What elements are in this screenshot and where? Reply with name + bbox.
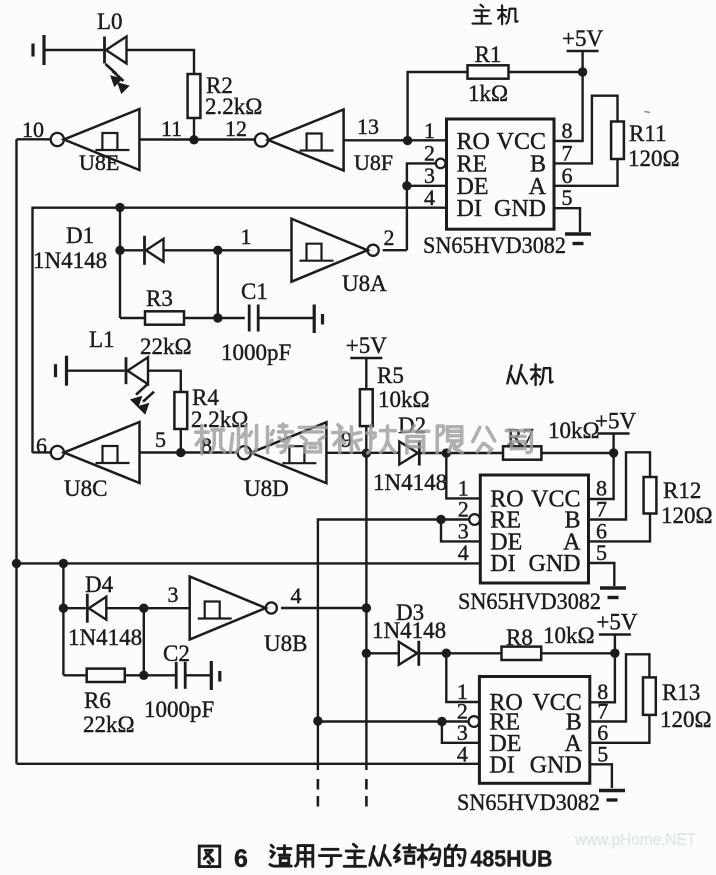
svg-text:D1: D1 bbox=[66, 223, 94, 248]
junction left bus / DI slave bbox=[12, 559, 21, 568]
junction D4 branch bbox=[59, 559, 68, 568]
svg-text:1000pF: 1000pF bbox=[221, 340, 291, 365]
junction D1 anode bbox=[115, 246, 124, 255]
wire node 10 to U8E output bbox=[17, 138, 51, 140]
svg-text:4: 4 bbox=[424, 185, 435, 210]
inverter U8F bbox=[255, 110, 344, 171]
svg-text:5: 5 bbox=[597, 741, 608, 766]
svg-text:4: 4 bbox=[291, 583, 302, 608]
junction R6/C2 bbox=[139, 671, 148, 680]
svg-text:2: 2 bbox=[384, 225, 395, 250]
wire U8E input node 11 bbox=[139, 138, 255, 140]
wire C1 to ground bbox=[258, 317, 313, 319]
wire D3 to RO branch (bottom) bbox=[419, 652, 502, 654]
junction node 5 (R4) bbox=[176, 448, 185, 457]
ground (bottom GND pin) bbox=[599, 791, 625, 801]
svg-text:U8E: U8E bbox=[79, 150, 119, 175]
svg-text:+5V: +5V bbox=[562, 26, 603, 51]
svg-text:GND: GND bbox=[529, 551, 581, 577]
wire ground to LED L1 bbox=[67, 370, 125, 372]
wire ground to LED L0 bbox=[44, 49, 103, 51]
junction D4 anode bbox=[59, 604, 68, 613]
wire DI-branch vertical bbox=[119, 207, 121, 318]
wire R2 bottom to node 11 bbox=[193, 118, 195, 140]
wire R3 left leg bbox=[120, 317, 145, 319]
svg-text:120Ω: 120Ω bbox=[628, 146, 680, 171]
+5V supply (master) bbox=[562, 26, 603, 51]
junction RE/DE tie (bottom) bbox=[437, 717, 446, 726]
wire +5V down to bottom VCC bbox=[590, 635, 615, 703]
resistor R5 bbox=[360, 389, 373, 426]
wire D4 branch vertical bbox=[62, 563, 64, 675]
diode D3 bbox=[399, 641, 419, 666]
ground (L1) bbox=[56, 356, 67, 386]
wire to D1 bbox=[120, 249, 143, 251]
svg-text:C2: C2 bbox=[163, 641, 190, 666]
svg-text:R1: R1 bbox=[475, 42, 502, 67]
wire D1 to node 1 bbox=[164, 249, 292, 251]
svg-text:1000pF: 1000pF bbox=[144, 697, 214, 722]
transceiver U-slave (SN65HVD3082) bbox=[458, 475, 607, 583]
wire LED L0 to R2 top bbox=[127, 50, 195, 74]
wire C2 to ground bbox=[185, 674, 210, 676]
transceiver U-bottom (SN65HVD3082) bbox=[457, 677, 608, 784]
wire D2 to RO branch bbox=[419, 452, 503, 454]
inverter U8A bbox=[292, 219, 379, 282]
wire to slave RO pin1 bbox=[446, 453, 480, 498]
svg-text:5: 5 bbox=[155, 427, 166, 452]
diode D1 bbox=[145, 236, 164, 265]
resistor R7 bbox=[503, 446, 541, 459]
svg-text:SN65HVD3082: SN65HVD3082 bbox=[457, 790, 600, 815]
LED L1 bbox=[126, 357, 154, 414]
svg-text:SN65HVD3082: SN65HVD3082 bbox=[423, 233, 566, 258]
resistor R6 bbox=[87, 669, 125, 682]
diode D4 bbox=[87, 594, 106, 623]
watermark 杭州将睿科技有限公司 bbox=[196, 424, 532, 454]
svg-text:1: 1 bbox=[424, 118, 435, 143]
svg-text:1kΩ: 1kΩ bbox=[468, 81, 508, 106]
svg-text:12: 12 bbox=[225, 116, 247, 141]
wire C2 branch vertical bbox=[143, 608, 145, 675]
svg-text:C1: C1 bbox=[241, 279, 268, 304]
svg-text:D4: D4 bbox=[85, 572, 114, 597]
wire R6 left leg bbox=[63, 674, 86, 676]
svg-text:DI: DI bbox=[489, 752, 514, 778]
caption 图 6 适用于主从结构的 485HUB bbox=[199, 844, 552, 873]
svg-text:4: 4 bbox=[458, 540, 469, 565]
junction node 13 (RO/R1) bbox=[403, 136, 412, 145]
wire R3 to C1 bbox=[184, 317, 245, 319]
wire LED L1 to R4 bbox=[148, 371, 181, 392]
ground (master GND pin) bbox=[565, 234, 591, 244]
LED L0 bbox=[105, 37, 129, 94]
wire DI row (slave, from left bus) bbox=[17, 562, 481, 564]
junction node1/C1 branch bbox=[213, 246, 222, 255]
wire to bottom RO pin1 bbox=[446, 653, 479, 702]
wire U8D input node 9 bbox=[326, 452, 399, 454]
wire B pin7 (master) bbox=[554, 96, 618, 164]
svg-text:485HUB: 485HUB bbox=[471, 846, 553, 872]
wire left bus vertical (node 10) bbox=[15, 139, 17, 764]
svg-text:1N4148: 1N4148 bbox=[373, 470, 447, 495]
svg-text:3: 3 bbox=[424, 163, 435, 188]
wire R6 to C2 bbox=[125, 674, 176, 676]
wire DI pin4 row (master) bbox=[33, 208, 447, 453]
svg-text:4: 4 bbox=[457, 741, 468, 766]
wire D4 to node 3 bbox=[106, 607, 189, 609]
svg-text:5: 5 bbox=[596, 540, 607, 565]
svg-text:120Ω: 120Ω bbox=[660, 707, 712, 732]
wire RE tie row (slave) bbox=[318, 520, 469, 771]
scan speck bbox=[645, 112, 651, 113]
wire RE tie row (bottom) bbox=[318, 720, 469, 722]
svg-text:U8D: U8D bbox=[244, 476, 289, 501]
svg-text:3: 3 bbox=[168, 582, 179, 607]
svg-text:22kΩ: 22kΩ bbox=[83, 712, 135, 737]
ground (C2) bbox=[211, 661, 220, 690]
svg-text:1N4148: 1N4148 bbox=[372, 618, 446, 643]
wire R4 bottom to node 5 bbox=[180, 429, 182, 453]
junction R3/C1 bbox=[213, 313, 222, 322]
resistor R2 bbox=[188, 74, 201, 118]
wire node 9 vertical bus bbox=[365, 453, 367, 770]
+5V supply (slave) bbox=[595, 409, 636, 434]
inverter U8D bbox=[238, 422, 327, 483]
svg-text:6: 6 bbox=[234, 845, 248, 873]
wire R8 to +5V (bottom) bbox=[541, 652, 615, 654]
wire GND pin5 (bottom) bbox=[590, 764, 612, 788]
svg-text:8: 8 bbox=[562, 118, 573, 143]
wire DE pin3 (master) bbox=[407, 185, 447, 187]
svg-text:13: 13 bbox=[357, 114, 379, 139]
resistor R12 bbox=[644, 477, 657, 514]
wire to D4 bbox=[63, 607, 85, 609]
svg-text:11: 11 bbox=[161, 116, 182, 141]
label 主机 (master) bbox=[473, 5, 518, 25]
wire B pin7 (bottom) bbox=[590, 654, 650, 721]
dashed continuation left bus bbox=[317, 779, 320, 810]
svg-text:1N4148: 1N4148 bbox=[68, 625, 142, 650]
wire node 6 to U8C bbox=[33, 451, 51, 453]
junction +5V/R7 (slave) bbox=[609, 448, 618, 457]
wire U8F input node 13 bbox=[344, 139, 447, 141]
svg-text:R3: R3 bbox=[146, 286, 173, 311]
resistor R13 bbox=[643, 677, 656, 715]
svg-text:1: 1 bbox=[241, 224, 252, 249]
wire +5V down to VCC pin8 bbox=[554, 51, 583, 141]
capacitor C2 bbox=[176, 662, 185, 689]
resistor R3 bbox=[145, 311, 184, 324]
svg-text:2: 2 bbox=[424, 140, 435, 165]
wire B pin7 (slave) bbox=[589, 452, 651, 519]
svg-text:+5V: +5V bbox=[346, 333, 387, 358]
svg-text:U8B: U8B bbox=[264, 631, 307, 656]
svg-text:6: 6 bbox=[36, 433, 47, 458]
wire R7 to +5V (slave) bbox=[541, 452, 613, 454]
wire R12 bottom to A pin6 (slave) bbox=[589, 514, 651, 542]
svg-text:R5: R5 bbox=[377, 363, 404, 388]
wire bottom bus row (DI) bbox=[17, 763, 480, 765]
svg-text:U8A: U8A bbox=[342, 271, 387, 296]
svg-text:1N4148: 1N4148 bbox=[33, 248, 107, 273]
wire U8B output to bus bbox=[281, 607, 366, 609]
ground (L0 anode-side) bbox=[33, 35, 44, 65]
wire +5V down to slave VCC bbox=[589, 434, 614, 500]
svg-text:R8: R8 bbox=[506, 625, 533, 650]
+5V supply (bottom) bbox=[596, 610, 637, 635]
junction node 11 (R2) bbox=[189, 135, 198, 144]
+5V supply (R5) bbox=[346, 333, 387, 358]
svg-text:R11: R11 bbox=[629, 121, 667, 146]
svg-text:R6: R6 bbox=[84, 688, 111, 713]
wire U8A output up to RE/DE tie bbox=[383, 249, 407, 251]
wire RE-DE link (slave) bbox=[441, 520, 480, 542]
wire GND pin5 (master) bbox=[554, 208, 580, 232]
junction RE/DE tie (slave) bbox=[436, 515, 445, 524]
junction node 4 / bus bbox=[362, 603, 371, 612]
pin 2 RE bubble (slave) bbox=[469, 514, 480, 525]
svg-text:www.pHome.NET: www.pHome.NET bbox=[574, 830, 696, 849]
resistor R11 bbox=[611, 122, 624, 160]
ground (slave GND pin) bbox=[600, 588, 626, 598]
wire node13 up to R1 bbox=[408, 72, 468, 141]
svg-text:U8F: U8F bbox=[354, 150, 393, 175]
label 从机 (slave) bbox=[507, 364, 552, 385]
junction DE tie (master) bbox=[402, 181, 411, 190]
svg-text:SN65HVD3082: SN65HVD3082 bbox=[458, 589, 601, 614]
resistor R8 bbox=[502, 647, 542, 660]
svg-text:GND: GND bbox=[530, 752, 582, 778]
svg-text:22kΩ: 22kΩ bbox=[140, 334, 192, 359]
inverter U8E bbox=[51, 109, 140, 170]
inverter U8C bbox=[51, 422, 140, 483]
wire R11 bottom to A pin6 bbox=[554, 159, 618, 186]
wire GND pin5 (slave) bbox=[589, 563, 615, 586]
svg-text:6: 6 bbox=[562, 163, 573, 188]
wire U8C input node 5 bbox=[140, 451, 238, 453]
transceiver U-master (SN65HVD3082) bbox=[424, 118, 573, 229]
inverter U8B bbox=[190, 577, 277, 640]
wire R1 to +5V bbox=[509, 71, 583, 73]
resistor R1 bbox=[468, 65, 509, 78]
svg-text:DI: DI bbox=[490, 551, 515, 577]
svg-text:10kΩ: 10kΩ bbox=[548, 418, 600, 443]
svg-text:L1: L1 bbox=[89, 327, 115, 352]
svg-text:R13: R13 bbox=[662, 680, 700, 705]
svg-text:R12: R12 bbox=[663, 478, 701, 503]
svg-text:+5V: +5V bbox=[595, 409, 636, 434]
svg-text:10kΩ: 10kΩ bbox=[378, 387, 430, 412]
svg-text:5: 5 bbox=[562, 185, 573, 210]
wire RE tie to DE (master) bbox=[407, 163, 436, 250]
wire bus to D3 bbox=[366, 652, 398, 654]
junction +5V/R1 bbox=[578, 67, 587, 76]
dashed continuation right bus bbox=[365, 779, 368, 810]
svg-text:L0: L0 bbox=[97, 9, 123, 34]
capacitor C1 bbox=[249, 305, 258, 332]
svg-text:U8C: U8C bbox=[64, 476, 107, 501]
wire node1 down to R3 row bbox=[217, 250, 219, 318]
svg-text:+5V: +5V bbox=[596, 610, 637, 635]
svg-text:7: 7 bbox=[562, 140, 573, 165]
pin 2 RE bubble (bottom) bbox=[469, 716, 480, 727]
wire +5V to R5 bbox=[365, 358, 367, 389]
svg-text:GND: GND bbox=[494, 196, 546, 222]
wire R5 bottom to node 9 bbox=[365, 426, 367, 453]
junction bottom RO branch bbox=[442, 649, 451, 658]
junction +5V/R8 (bottom) bbox=[610, 649, 619, 658]
junction node 3 (C2 branch) bbox=[139, 604, 148, 613]
junction node 9 (R5/D2) bbox=[362, 449, 371, 458]
wire R13 bottom to A pin6 (bottom) bbox=[590, 715, 650, 743]
junction slave RO branch bbox=[442, 448, 451, 457]
pin 2 RE bubble (master) bbox=[436, 159, 446, 169]
junction DI row / D1 branch bbox=[115, 203, 124, 212]
ground (C1) bbox=[314, 305, 322, 334]
wire RE-DE link (bottom) bbox=[442, 722, 480, 743]
svg-text:120Ω: 120Ω bbox=[661, 503, 713, 528]
diode D2 bbox=[399, 441, 419, 466]
svg-text:10kΩ: 10kΩ bbox=[543, 623, 595, 648]
svg-text:DI: DI bbox=[457, 196, 482, 222]
resistor R4 bbox=[174, 392, 187, 429]
svg-text:10: 10 bbox=[22, 117, 44, 142]
junction RE tie / left dashed bus bbox=[313, 716, 322, 725]
junction D3 branch on bus bbox=[362, 649, 371, 658]
